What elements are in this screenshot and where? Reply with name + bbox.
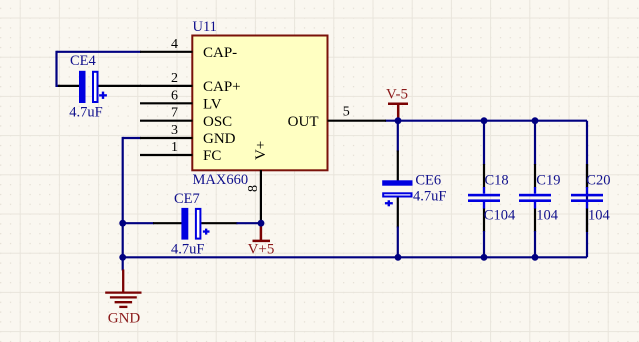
pin 1 stub — [140, 154, 193, 156]
pin of CE4 right (black) — [98, 85, 141, 87]
svg-text:V+: V+ — [253, 141, 269, 160]
wire CE4 left to plate — [57, 85, 61, 87]
junction node on top rail at C18 — [481, 117, 488, 124]
junction node on top rail at CE6 — [395, 117, 402, 124]
svg-text:FC: FC — [203, 148, 221, 164]
svg-text:C18: C18 — [485, 172, 509, 188]
wire CE6 top lead — [397, 121, 399, 152]
svg-text:4: 4 — [171, 37, 178, 52]
junction node pin8 V+5 — [258, 220, 265, 227]
junction node CE7 left — [119, 220, 126, 227]
capacitor CE6 — [382, 180, 412, 206]
capacitor C20 — [571, 164, 603, 232]
svg-text:C19: C19 — [536, 172, 560, 188]
svg-text:CE7: CE7 — [174, 191, 200, 207]
svg-text:GND: GND — [203, 131, 236, 147]
wire CE4 left vertical — [55, 51, 57, 87]
svg-text:6: 6 — [171, 88, 178, 103]
wire C18 top branch — [483, 121, 485, 165]
svg-text:C104: C104 — [484, 207, 516, 223]
capacitor CE4 — [79, 71, 107, 103]
junction node bottom rail C18 — [481, 254, 488, 261]
wire right vertical C20 branch — [586, 121, 588, 258]
svg-text:GND: GND — [108, 310, 141, 326]
svg-text:4.7uF: 4.7uF — [171, 242, 204, 258]
pin 2 stub — [140, 85, 193, 87]
pin of CE7 left (black) — [153, 222, 182, 224]
svg-text:CE6: CE6 — [415, 172, 441, 188]
pin of CE4 left (black) — [58, 85, 80, 87]
capacitor CE7 — [181, 208, 209, 240]
svg-text:CAP+: CAP+ — [203, 79, 241, 95]
wire left vertical — [122, 137, 124, 257]
wire CE7 right to pin8 node — [237, 222, 262, 224]
wire pin3 horizontal — [123, 137, 141, 139]
svg-text:104: 104 — [536, 207, 559, 223]
wire C18 bottom branch — [483, 202, 485, 209]
svg-text:5: 5 — [343, 104, 350, 119]
svg-text:LV: LV — [203, 97, 222, 113]
junction node bottom rail left GND — [119, 254, 126, 261]
ground — [105, 257, 141, 326]
capacitor C19 — [519, 187, 551, 209]
junction node bottom rail C19 — [532, 254, 539, 261]
junction node bottom rail CE6 — [395, 254, 402, 261]
svg-text:U11: U11 — [193, 19, 217, 35]
wire bottom rail — [123, 256, 587, 258]
svg-text:4.7uF: 4.7uF — [69, 105, 102, 121]
power symbol V+5 — [248, 224, 275, 258]
wire C19 bottom branch — [534, 202, 536, 209]
pin 7 stub — [140, 120, 193, 122]
svg-text:104: 104 — [588, 207, 611, 223]
wire pin4 to CE4 loop top — [57, 51, 142, 53]
wire top rail — [385, 120, 587, 122]
svg-text:3: 3 — [171, 123, 178, 138]
wire CE6 bottom lead — [397, 227, 399, 258]
wire CE7 left — [123, 222, 154, 224]
svg-text:CE4: CE4 — [70, 53, 97, 69]
svg-text:C20: C20 — [586, 172, 610, 188]
svg-text:V+5: V+5 — [248, 242, 275, 258]
power symbol V-5 — [386, 86, 408, 119]
pin 3 stub — [140, 137, 193, 139]
junction node on top rail at C19 — [532, 117, 539, 124]
IC U11 MAX660 chip body — [192, 36, 327, 171]
pin of CE7 right (black) — [201, 222, 237, 224]
svg-text:1: 1 — [171, 140, 178, 155]
pin 6 stub — [140, 102, 193, 104]
svg-text:CAP-: CAP- — [203, 45, 237, 61]
svg-text:MAX660: MAX660 — [193, 172, 249, 188]
capacitor C18 — [468, 187, 500, 209]
pin 8 stub — [260, 170, 262, 222]
pin 4 stub — [140, 51, 193, 53]
svg-text:4.7uF: 4.7uF — [413, 189, 446, 205]
svg-text:OUT: OUT — [288, 114, 319, 130]
svg-text:V-5: V-5 — [386, 86, 408, 102]
svg-text:OSC: OSC — [203, 114, 232, 130]
svg-text:7: 7 — [171, 106, 178, 121]
svg-text:2: 2 — [171, 71, 178, 86]
pin of CE6 top (black) — [397, 151, 399, 181]
pin 5 stub — [328, 120, 387, 122]
pin of CE6 bottom (black) — [397, 197, 399, 227]
svg-text:8: 8 — [246, 185, 261, 192]
wire C19 top branch — [534, 121, 536, 165]
